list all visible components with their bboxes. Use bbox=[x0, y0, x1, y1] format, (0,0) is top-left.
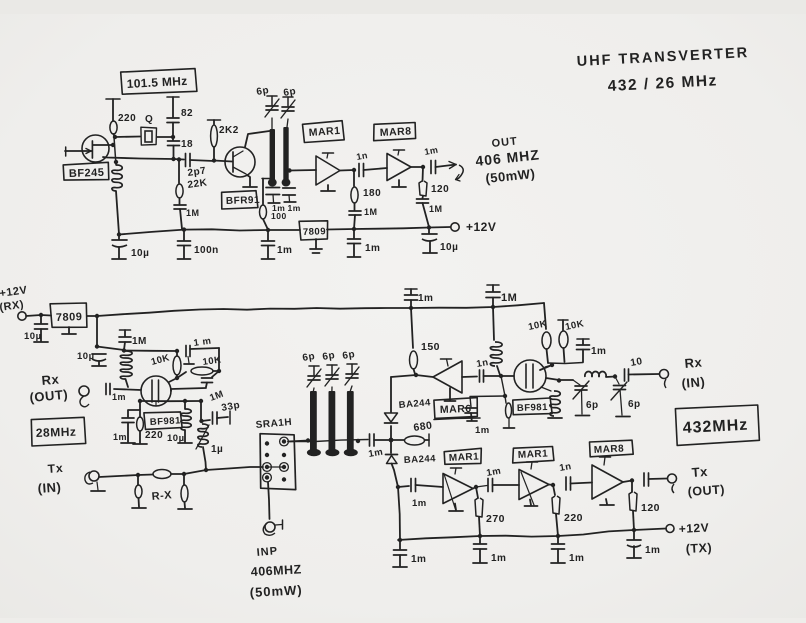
svg-text:INP: INP bbox=[256, 545, 278, 559]
svg-text:6p: 6p bbox=[256, 85, 270, 98]
svg-text:Tx: Tx bbox=[691, 464, 708, 480]
svg-text:220: 220 bbox=[145, 430, 163, 441]
svg-text:10: 10 bbox=[630, 356, 644, 369]
svg-text:82: 82 bbox=[181, 108, 193, 119]
svg-text:6p: 6p bbox=[322, 350, 336, 363]
svg-text:120: 120 bbox=[641, 502, 660, 514]
svg-text:7809: 7809 bbox=[303, 226, 327, 238]
svg-text:1m: 1m bbox=[412, 498, 427, 509]
svg-text:18: 18 bbox=[181, 139, 193, 150]
svg-text:1m: 1m bbox=[569, 553, 584, 564]
svg-text:10µ: 10µ bbox=[167, 433, 185, 444]
svg-text:1m: 1m bbox=[112, 392, 126, 402]
svg-text:MAR8: MAR8 bbox=[380, 125, 412, 139]
svg-text:BF981: BF981 bbox=[150, 415, 182, 428]
svg-text:1M: 1M bbox=[501, 292, 517, 304]
svg-text:Tx: Tx bbox=[47, 461, 64, 476]
svg-text:R-X: R-X bbox=[151, 489, 173, 503]
svg-text:1M: 1M bbox=[429, 204, 443, 214]
svg-text:BA244: BA244 bbox=[404, 453, 437, 466]
svg-text:270: 270 bbox=[486, 513, 505, 525]
svg-text:10µ: 10µ bbox=[131, 248, 149, 259]
svg-text:1m: 1m bbox=[475, 425, 490, 436]
svg-text:(OUT): (OUT) bbox=[687, 482, 725, 499]
svg-text:1M: 1M bbox=[132, 336, 147, 347]
svg-text:2K2: 2K2 bbox=[219, 125, 239, 136]
svg-text:Rx: Rx bbox=[684, 354, 703, 371]
svg-text:6p: 6p bbox=[586, 400, 599, 411]
svg-text:1m: 1m bbox=[591, 346, 606, 357]
svg-text:1m: 1m bbox=[491, 553, 506, 564]
svg-text:MAR1: MAR1 bbox=[449, 451, 480, 464]
svg-text:10µ: 10µ bbox=[24, 331, 42, 342]
svg-text:1m: 1m bbox=[418, 293, 433, 304]
svg-text:10µ: 10µ bbox=[77, 351, 95, 362]
svg-text:(50mW): (50mW) bbox=[249, 582, 303, 600]
svg-text:MAR6: MAR6 bbox=[440, 403, 472, 416]
svg-text:1m: 1m bbox=[288, 203, 301, 213]
svg-text:BF245: BF245 bbox=[69, 167, 105, 180]
svg-text:10µ: 10µ bbox=[440, 242, 458, 253]
svg-text:Q: Q bbox=[145, 114, 153, 125]
svg-text:1M: 1M bbox=[364, 207, 378, 217]
svg-text:7809: 7809 bbox=[56, 311, 83, 324]
svg-text:6p: 6p bbox=[283, 86, 297, 99]
svg-text:BFR91: BFR91 bbox=[226, 195, 261, 207]
svg-text:MAR1: MAR1 bbox=[308, 125, 341, 139]
svg-text:28MHz: 28MHz bbox=[36, 425, 77, 440]
svg-text:150: 150 bbox=[421, 341, 440, 353]
svg-text:1µ: 1µ bbox=[211, 444, 223, 455]
svg-text:100n: 100n bbox=[194, 245, 219, 256]
svg-text:100: 100 bbox=[271, 211, 287, 221]
svg-text:+12V: +12V bbox=[466, 220, 496, 234]
svg-text:406MHZ: 406MHZ bbox=[250, 562, 302, 579]
svg-text:1m: 1m bbox=[113, 432, 127, 442]
svg-text:6p: 6p bbox=[302, 351, 316, 364]
svg-text:432MHz: 432MHz bbox=[682, 417, 748, 437]
svg-text:1m: 1m bbox=[365, 243, 380, 254]
svg-text:BF981: BF981 bbox=[517, 402, 549, 414]
svg-text:1n: 1n bbox=[356, 150, 369, 162]
svg-text:6p: 6p bbox=[628, 399, 641, 410]
svg-text:1m: 1m bbox=[277, 245, 292, 256]
svg-text:MAR8: MAR8 bbox=[594, 443, 625, 456]
svg-text:6p: 6p bbox=[342, 349, 356, 362]
svg-text:220: 220 bbox=[564, 512, 583, 524]
svg-text:Rx: Rx bbox=[41, 371, 60, 388]
svg-text:1M: 1M bbox=[186, 208, 200, 218]
svg-text:1m: 1m bbox=[411, 554, 426, 565]
svg-text:120: 120 bbox=[431, 184, 449, 195]
svg-text:(IN): (IN) bbox=[681, 374, 706, 391]
svg-text:180: 180 bbox=[363, 188, 381, 199]
svg-text:1n: 1n bbox=[559, 461, 573, 474]
svg-text:220: 220 bbox=[118, 113, 136, 124]
svg-text:+12V: +12V bbox=[678, 520, 709, 536]
svg-text:(TX): (TX) bbox=[685, 541, 712, 556]
svg-text:(IN): (IN) bbox=[37, 479, 62, 496]
svg-text:1n: 1n bbox=[476, 357, 490, 370]
svg-text:1m: 1m bbox=[645, 545, 660, 556]
svg-text:MAR1: MAR1 bbox=[518, 448, 549, 461]
